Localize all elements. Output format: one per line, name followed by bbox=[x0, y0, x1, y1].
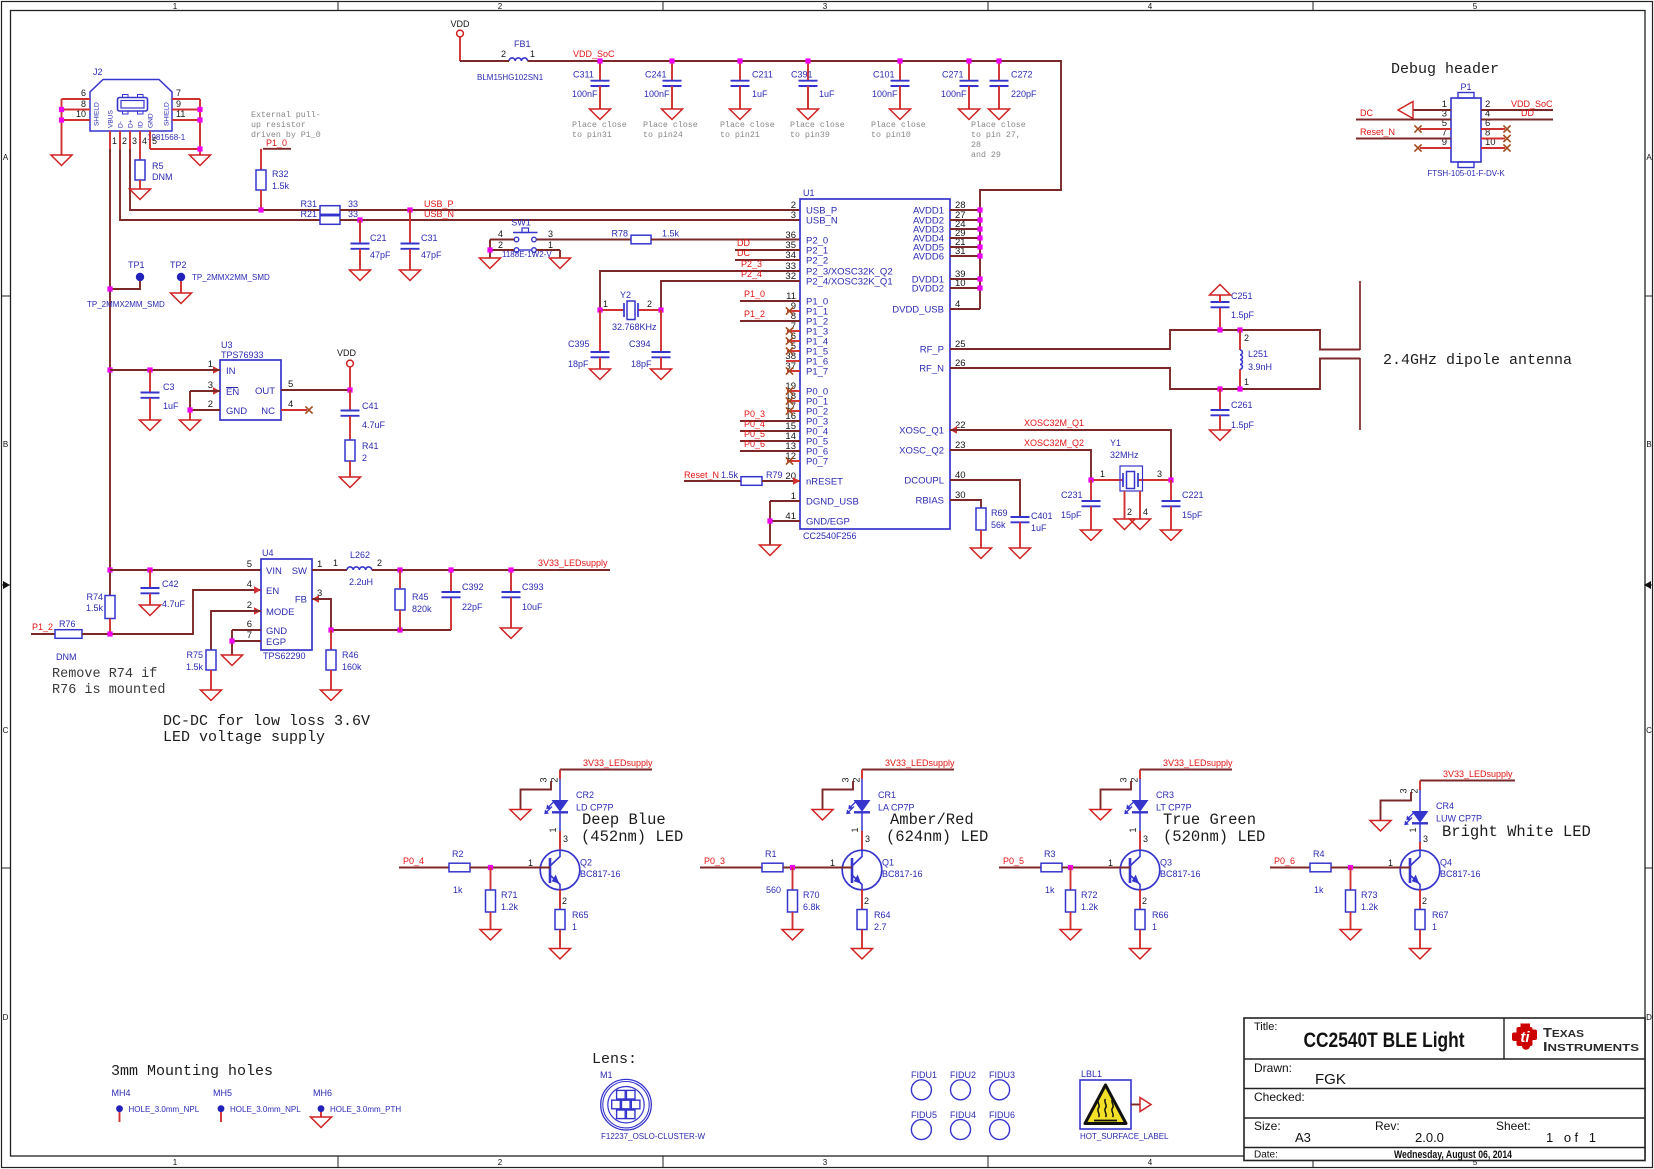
ground bbox=[1410, 949, 1431, 960]
ground bbox=[1090, 810, 1111, 821]
svg-text:RF_N: RF_N bbox=[919, 364, 944, 375]
no-connect P1 pin8 bbox=[1481, 135, 1511, 142]
ground bbox=[190, 155, 211, 166]
wire R1 to base bbox=[783, 867, 852, 869]
svg-text:True Green: True Green bbox=[1163, 811, 1256, 829]
note: remove R74 bbox=[52, 667, 165, 698]
svg-text:3: 3 bbox=[1119, 777, 1129, 782]
ground bbox=[1114, 519, 1135, 530]
svg-text:P1_2: P1_2 bbox=[744, 309, 765, 319]
transistor Q1 BC817-16 bbox=[830, 850, 923, 906]
svg-text:220pF: 220pF bbox=[1011, 89, 1037, 99]
svg-text:1: 1 bbox=[1432, 922, 1437, 932]
wire LED cathode to Q4 collector bbox=[1408, 823, 1428, 850]
svg-text:SHIELD: SHIELD bbox=[164, 102, 171, 126]
svg-text:P1_0: P1_0 bbox=[744, 289, 765, 299]
svg-text:SW1: SW1 bbox=[511, 218, 531, 228]
svg-text:22pF: 22pF bbox=[462, 602, 483, 612]
capacitor C231 15pF bbox=[1061, 480, 1101, 530]
svg-text:32MHz: 32MHz bbox=[1110, 450, 1139, 460]
crystal Y2 32.768KHz bbox=[600, 290, 661, 332]
svg-text:R74: R74 bbox=[86, 592, 103, 602]
svg-text:C41: C41 bbox=[362, 401, 379, 411]
svg-text:XOSC32M_Q1: XOSC32M_Q1 bbox=[1024, 418, 1084, 428]
svg-text:VDD: VDD bbox=[337, 348, 357, 358]
svg-text:11: 11 bbox=[176, 109, 185, 119]
wire FB divider rail bbox=[331, 597, 451, 630]
test point TP2 bbox=[170, 260, 270, 293]
svg-text:P1_7: P1_7 bbox=[806, 367, 828, 378]
svg-text:P0_3: P0_3 bbox=[744, 409, 765, 419]
no-connect pin stub bbox=[786, 347, 800, 354]
junction bbox=[258, 207, 263, 212]
svg-text:1: 1 bbox=[528, 858, 533, 868]
svg-text:32.768KHz: 32.768KHz bbox=[612, 322, 657, 332]
svg-text:3: 3 bbox=[1143, 834, 1148, 844]
svg-text:CC2540T BLE Light: CC2540T BLE Light bbox=[1304, 1029, 1465, 1052]
svg-text:Place close: Place close bbox=[871, 120, 926, 130]
junction bbox=[1168, 477, 1173, 482]
resistor R4 1k bbox=[1310, 849, 1331, 895]
junction bbox=[1217, 386, 1222, 391]
svg-text:1: 1 bbox=[1244, 377, 1249, 387]
junction bbox=[966, 58, 971, 63]
svg-text:C: C bbox=[1646, 726, 1652, 735]
svg-text:FIDU3: FIDU3 bbox=[989, 1070, 1015, 1080]
svg-text:BC817-16: BC817-16 bbox=[1440, 869, 1481, 879]
svg-text:5: 5 bbox=[152, 136, 157, 146]
note: place close to pin 27,28,29 bbox=[971, 120, 1026, 160]
svg-text:6: 6 bbox=[81, 88, 86, 98]
svg-text:Remove R74 if: Remove R74 if bbox=[52, 667, 157, 682]
svg-text:C221: C221 bbox=[1182, 490, 1204, 500]
resistor R5 DNM bbox=[135, 131, 173, 189]
svg-text:MODE: MODE bbox=[266, 607, 295, 618]
wire CR1 pin3 to ground bbox=[823, 781, 854, 810]
svg-text:Debug header: Debug header bbox=[1391, 61, 1499, 78]
svg-text:up resistor: up resistor bbox=[251, 120, 306, 130]
capacitor C211 1uF bbox=[731, 61, 773, 109]
wire SW1 pin1 to ground bbox=[537, 250, 561, 258]
resistor R66 1 bbox=[1135, 890, 1169, 949]
resistor R45 820k bbox=[395, 570, 432, 630]
wire R2 to base bbox=[470, 867, 550, 869]
wire R3 to base bbox=[1062, 867, 1130, 869]
svg-text:C395: C395 bbox=[568, 339, 590, 349]
svg-text:Bright White LED: Bright White LED bbox=[1442, 823, 1591, 841]
wire P1 pin1 with off-page arrow bbox=[1398, 102, 1451, 119]
svg-text:1: 1 bbox=[1388, 858, 1393, 868]
wire U3 OUT bbox=[281, 389, 350, 391]
svg-text:DD: DD bbox=[737, 238, 750, 248]
svg-text:2: 2 bbox=[1127, 507, 1132, 517]
svg-text:160k: 160k bbox=[342, 662, 362, 672]
svg-text:2: 2 bbox=[501, 49, 506, 59]
ferrite bead FB1 BLM15HG102SN1 bbox=[477, 39, 544, 82]
svg-text:4: 4 bbox=[498, 229, 503, 239]
junction bbox=[977, 226, 982, 231]
ground bbox=[51, 155, 72, 166]
junction bbox=[1237, 327, 1242, 332]
net 3V33_LEDsupply wire (CR3) bbox=[1140, 769, 1232, 771]
junction bbox=[107, 567, 112, 572]
fiducial FIDU1 bbox=[911, 1070, 937, 1100]
svg-text:B: B bbox=[1646, 440, 1651, 449]
svg-text:P0_4: P0_4 bbox=[403, 856, 424, 866]
svg-text:2.2uH: 2.2uH bbox=[349, 577, 373, 587]
svg-text:EN: EN bbox=[226, 387, 239, 398]
capacitor C393 10uF bbox=[502, 570, 544, 628]
svg-text:4: 4 bbox=[142, 136, 147, 146]
svg-text:External pull-: External pull- bbox=[251, 110, 321, 120]
svg-text:ID: ID bbox=[138, 121, 145, 128]
svg-text:EGP: EGP bbox=[266, 637, 286, 648]
svg-text:4: 4 bbox=[1143, 507, 1148, 517]
capacitor C3 1uF bbox=[141, 370, 180, 420]
svg-text:5: 5 bbox=[247, 559, 252, 570]
svg-text:3: 3 bbox=[132, 136, 137, 146]
svg-text:6: 6 bbox=[247, 619, 252, 630]
svg-text:BC817-16: BC817-16 bbox=[580, 869, 621, 879]
svg-text:to pin10: to pin10 bbox=[871, 130, 911, 140]
svg-text:C394: C394 bbox=[629, 339, 651, 349]
net RF_P wire bbox=[950, 330, 1360, 350]
svg-text:R76 is mounted: R76 is mounted bbox=[52, 683, 165, 698]
power symbol VDD (top) bbox=[450, 19, 470, 61]
capacitor C251 1.5pF bbox=[1211, 291, 1255, 330]
svg-text:to pin31: to pin31 bbox=[572, 130, 612, 140]
svg-text:TEXAS: TEXAS bbox=[1543, 1025, 1584, 1040]
svg-text:TP1: TP1 bbox=[128, 260, 145, 270]
svg-text:FB: FB bbox=[295, 595, 307, 606]
junction bbox=[107, 367, 112, 372]
net USB_N wire bbox=[340, 219, 800, 221]
svg-text:TP_2MMX2MM_SMD: TP_2MMX2MM_SMD bbox=[87, 300, 165, 309]
svg-text:P0_6: P0_6 bbox=[744, 439, 765, 449]
svg-text:SHIELD: SHIELD bbox=[94, 102, 101, 126]
wire VDD to FB1 bbox=[460, 60, 509, 62]
svg-text:10: 10 bbox=[76, 109, 86, 119]
no-connect P1 pin6 bbox=[1481, 125, 1511, 132]
svg-text:C311: C311 bbox=[573, 70, 594, 80]
svg-text:A: A bbox=[3, 153, 9, 162]
svg-text:OUT: OUT bbox=[255, 386, 275, 397]
note: LED description bbox=[886, 811, 988, 846]
junction bbox=[669, 58, 674, 63]
svg-text:R76: R76 bbox=[59, 619, 76, 629]
svg-text:L262: L262 bbox=[350, 550, 370, 560]
net DC wire bbox=[1356, 108, 1451, 120]
svg-text:3: 3 bbox=[865, 834, 870, 844]
svg-text:C31: C31 bbox=[421, 233, 438, 243]
capacitor C394 18pF bbox=[629, 310, 671, 369]
svg-text:3: 3 bbox=[823, 1158, 828, 1167]
svg-text:D-: D- bbox=[118, 121, 125, 128]
antenna (dipole elements) bbox=[1359, 281, 1361, 430]
svg-text:C392: C392 bbox=[462, 582, 484, 592]
wire LED cathode to Q1 collector bbox=[850, 812, 870, 850]
svg-text:RBIAS: RBIAS bbox=[915, 496, 944, 507]
svg-text:P0_6: P0_6 bbox=[1274, 856, 1295, 866]
svg-text:15pF: 15pF bbox=[1061, 510, 1082, 520]
ground bbox=[550, 949, 571, 960]
svg-text:VBUS: VBUS bbox=[108, 109, 115, 128]
mounting hole MH4 bbox=[112, 1088, 200, 1122]
svg-text:to pin39: to pin39 bbox=[790, 130, 830, 140]
svg-text:(520nm) LED: (520nm) LED bbox=[1163, 828, 1265, 846]
svg-text:CR3: CR3 bbox=[1156, 790, 1174, 800]
svg-text:1: 1 bbox=[333, 558, 338, 568]
svg-text:XOSC32M_Q2: XOSC32M_Q2 bbox=[1024, 438, 1084, 448]
no-connect P1 pin10 bbox=[1481, 144, 1511, 151]
svg-text:Place close: Place close bbox=[790, 120, 845, 130]
note: DC-DC for low loss bbox=[163, 713, 370, 746]
wire J2 right shield pins to ground bbox=[150, 99, 200, 155]
net RF_N wire bbox=[950, 359, 1360, 390]
fiducial FIDU6 bbox=[989, 1110, 1015, 1140]
svg-text:R4: R4 bbox=[1313, 849, 1325, 859]
junction bbox=[328, 627, 333, 632]
svg-text:3: 3 bbox=[841, 777, 851, 782]
no-connect pin stub bbox=[786, 407, 800, 414]
svg-text:Place close: Place close bbox=[971, 120, 1026, 130]
svg-text:DVDD2: DVDD2 bbox=[912, 284, 944, 295]
net label P1_2 (dc-dc enable) bbox=[31, 622, 55, 634]
junction bbox=[737, 58, 742, 63]
junction bbox=[448, 567, 453, 572]
ground bbox=[350, 270, 371, 281]
ground bbox=[760, 545, 781, 556]
svg-text:M1: M1 bbox=[600, 1070, 613, 1080]
junction bbox=[508, 567, 513, 572]
svg-text:2.4GHz dipole antenna: 2.4GHz dipole antenna bbox=[1383, 352, 1572, 369]
svg-text:nRESET: nRESET bbox=[806, 477, 843, 488]
junction bbox=[805, 58, 810, 63]
net USB_P wire bbox=[340, 209, 800, 211]
svg-text:1.2k: 1.2k bbox=[501, 902, 519, 912]
capacitor C41 4.7uF bbox=[341, 390, 386, 440]
svg-text:R45: R45 bbox=[412, 592, 429, 602]
svg-text:1.5k: 1.5k bbox=[272, 181, 290, 191]
svg-text:Q2: Q2 bbox=[580, 858, 592, 868]
svg-text:FIDU4: FIDU4 bbox=[950, 1110, 976, 1120]
svg-text:8: 8 bbox=[81, 99, 86, 109]
net P2_4 wire to Y2 bbox=[661, 281, 800, 310]
svg-text:DCOUPL: DCOUPL bbox=[904, 476, 944, 487]
ground bbox=[501, 628, 522, 639]
junction bbox=[347, 387, 352, 392]
svg-text:HOLE_3.0mm_NPL: HOLE_3.0mm_NPL bbox=[230, 1105, 301, 1114]
svg-text:U3: U3 bbox=[221, 340, 233, 350]
junction bbox=[107, 286, 112, 291]
svg-text:560: 560 bbox=[766, 885, 781, 895]
svg-text:C: C bbox=[3, 726, 9, 735]
svg-text:3: 3 bbox=[208, 380, 213, 391]
svg-text:P1_2: P1_2 bbox=[32, 622, 53, 632]
svg-text:LED voltage supply: LED voltage supply bbox=[163, 729, 325, 746]
resistor R79 1.5k bbox=[721, 470, 783, 485]
resistor R32 1.5k bbox=[256, 149, 290, 210]
svg-text:3: 3 bbox=[791, 210, 796, 221]
net 3V33_LEDsupply wire (CR2) bbox=[560, 769, 652, 771]
svg-text:FIDU1: FIDU1 bbox=[911, 1070, 937, 1080]
junction bbox=[977, 235, 982, 240]
svg-text:P1: P1 bbox=[1460, 82, 1471, 92]
svg-text:FIDU2: FIDU2 bbox=[950, 1070, 976, 1080]
svg-text:to pin24: to pin24 bbox=[643, 130, 683, 140]
svg-text:INSTRUMENTS: INSTRUMENTS bbox=[1543, 1039, 1639, 1054]
svg-text:1: 1 bbox=[1408, 827, 1418, 832]
wire SW1 pin3 to R78 bbox=[537, 239, 632, 241]
svg-text:TP_2MMX2MM_SMD: TP_2MMX2MM_SMD bbox=[192, 273, 270, 282]
svg-text:and 29: and 29 bbox=[971, 150, 1001, 160]
wire DGND_USB / GND-EGP to ground bbox=[770, 501, 800, 545]
junction bbox=[488, 865, 493, 870]
svg-text:6.8k: 6.8k bbox=[803, 902, 821, 912]
ground (up) bbox=[1210, 285, 1231, 296]
capacitor C261 1.5pF bbox=[1211, 389, 1255, 430]
wire RBIAS bbox=[950, 500, 981, 508]
svg-text:Place close: Place close bbox=[720, 120, 775, 130]
svg-text:R72: R72 bbox=[1081, 890, 1098, 900]
IC U4 TPS62290 bbox=[247, 548, 323, 661]
svg-text:Reset_N: Reset_N bbox=[684, 470, 719, 480]
resistor R64 2.7 bbox=[857, 890, 891, 949]
svg-text:1.5k: 1.5k bbox=[86, 603, 104, 613]
mounting hole MH6 bbox=[313, 1088, 401, 1117]
svg-text:Checked:: Checked: bbox=[1254, 1090, 1305, 1104]
svg-text:Amber/Red: Amber/Red bbox=[890, 811, 974, 829]
fiducial FIDU2 bbox=[950, 1070, 976, 1100]
net XOSC32M_Q2 wire bbox=[950, 450, 1091, 480]
wire U4 FB bbox=[312, 599, 331, 630]
fiducial FIDU5 bbox=[911, 1110, 937, 1140]
ground bbox=[651, 369, 672, 380]
wire VIN row bbox=[110, 569, 261, 571]
svg-text:1k: 1k bbox=[1045, 885, 1055, 895]
svg-text:C401: C401 bbox=[1031, 511, 1053, 521]
svg-text:Title:: Title: bbox=[1254, 1021, 1277, 1033]
svg-text:R1: R1 bbox=[765, 849, 777, 859]
svg-text:CC2540F256: CC2540F256 bbox=[803, 531, 857, 541]
svg-text:C272: C272 bbox=[1011, 70, 1033, 80]
svg-text:1: 1 bbox=[1152, 922, 1157, 932]
svg-text:LBL1: LBL1 bbox=[1081, 1069, 1102, 1079]
svg-text:(624nm) LED: (624nm) LED bbox=[886, 828, 988, 846]
svg-text:R3: R3 bbox=[1044, 849, 1056, 859]
svg-text:R66: R66 bbox=[1152, 910, 1169, 920]
svg-text:USB_N: USB_N bbox=[424, 209, 454, 219]
svg-text:R21: R21 bbox=[300, 209, 317, 219]
resistor R69 56k bbox=[976, 508, 1008, 548]
title block bbox=[1244, 1018, 1645, 1161]
note: place close bbox=[790, 120, 845, 140]
svg-text:BC817-16: BC817-16 bbox=[1160, 869, 1201, 879]
svg-text:4: 4 bbox=[247, 579, 252, 590]
svg-text:3mm Mounting holes: 3mm Mounting holes bbox=[111, 1063, 273, 1080]
junction bbox=[977, 217, 982, 222]
svg-text:F12237_OSLO-CLUSTER-W: F12237_OSLO-CLUSTER-W bbox=[601, 1132, 705, 1141]
svg-text:3V33_LEDsupply: 3V33_LEDsupply bbox=[1443, 769, 1513, 779]
svg-text:XOSC_Q2: XOSC_Q2 bbox=[899, 446, 944, 457]
svg-text:R73: R73 bbox=[1361, 890, 1378, 900]
svg-text:DNM: DNM bbox=[152, 172, 173, 182]
resistor R46 160k bbox=[326, 630, 362, 690]
svg-text:56k: 56k bbox=[991, 520, 1006, 530]
svg-text:1k: 1k bbox=[1314, 885, 1324, 895]
svg-text:Deep Blue: Deep Blue bbox=[582, 811, 666, 829]
svg-text:DD: DD bbox=[1521, 108, 1534, 118]
resistor R65 1 bbox=[555, 890, 589, 949]
junction bbox=[597, 307, 602, 312]
junction bbox=[407, 207, 412, 212]
svg-text:Sheet:: Sheet: bbox=[1496, 1119, 1531, 1133]
svg-text:P0_5: P0_5 bbox=[1003, 856, 1024, 866]
svg-text:C261: C261 bbox=[1231, 400, 1253, 410]
LED CR2 LD CP7P bbox=[539, 770, 614, 815]
net 3V33_LEDsupply rail bbox=[372, 569, 610, 571]
svg-text:BC817-16: BC817-16 bbox=[882, 869, 923, 879]
svg-text:47pF: 47pF bbox=[421, 250, 442, 260]
ground bbox=[590, 369, 611, 380]
capacitor C401 1uF bbox=[1011, 511, 1053, 548]
svg-text:P2_4/XOSC32K_Q1: P2_4/XOSC32K_Q1 bbox=[806, 277, 893, 288]
wire VBUS to U3 IN bbox=[110, 369, 220, 371]
svg-text:1: 1 bbox=[112, 136, 117, 146]
svg-text:SW: SW bbox=[292, 566, 307, 577]
svg-text:47pF: 47pF bbox=[370, 250, 391, 260]
svg-text:4: 4 bbox=[1148, 1158, 1153, 1167]
svg-text:1: 1 bbox=[208, 359, 213, 370]
ground bbox=[1060, 930, 1081, 941]
svg-text:Q3: Q3 bbox=[1160, 858, 1172, 868]
svg-text:LUW CP7P: LUW CP7P bbox=[1436, 814, 1482, 824]
junction bbox=[397, 567, 402, 572]
svg-text:Y2: Y2 bbox=[620, 290, 631, 300]
no-connect U3 NC bbox=[281, 406, 313, 413]
LED CR1 LA CP7P bbox=[841, 770, 915, 815]
svg-text:MH5: MH5 bbox=[213, 1088, 232, 1098]
svg-text:C271: C271 bbox=[942, 70, 964, 80]
svg-text:1: 1 bbox=[1108, 858, 1113, 868]
svg-text:IN: IN bbox=[226, 366, 236, 377]
svg-text:9: 9 bbox=[176, 99, 181, 109]
wire D- (J2 pin2) to USB_N bbox=[120, 131, 320, 220]
net VDD_SoC wire (P1 pin2) bbox=[1481, 99, 1553, 110]
label LBL1 HOT_SURFACE_LABEL bbox=[1080, 1069, 1169, 1141]
test point TP1 bbox=[110, 260, 145, 289]
svg-text:5: 5 bbox=[1473, 2, 1478, 11]
note: LED description bbox=[581, 811, 683, 846]
junction bbox=[767, 518, 772, 523]
svg-text:TPS62290: TPS62290 bbox=[263, 651, 306, 661]
svg-text:2: 2 bbox=[498, 1158, 503, 1167]
svg-text:1: 1 bbox=[173, 1158, 178, 1167]
net P0_6 wire bbox=[1270, 856, 1310, 868]
capacitor C391 1uF bbox=[791, 61, 835, 109]
ground bbox=[321, 690, 342, 701]
svg-text:100nF: 100nF bbox=[644, 89, 670, 99]
junction bbox=[397, 627, 402, 632]
svg-text:R75: R75 bbox=[186, 650, 203, 660]
wire R78 to U1 P2_0 bbox=[651, 239, 800, 241]
svg-text:1: 1 bbox=[548, 827, 558, 832]
capacitor C31 47pF bbox=[401, 210, 443, 270]
transistor Q3 BC817-16 bbox=[1108, 850, 1201, 906]
svg-text:2: 2 bbox=[208, 399, 213, 410]
svg-text:C241: C241 bbox=[645, 70, 667, 80]
note: place close bbox=[643, 120, 698, 140]
